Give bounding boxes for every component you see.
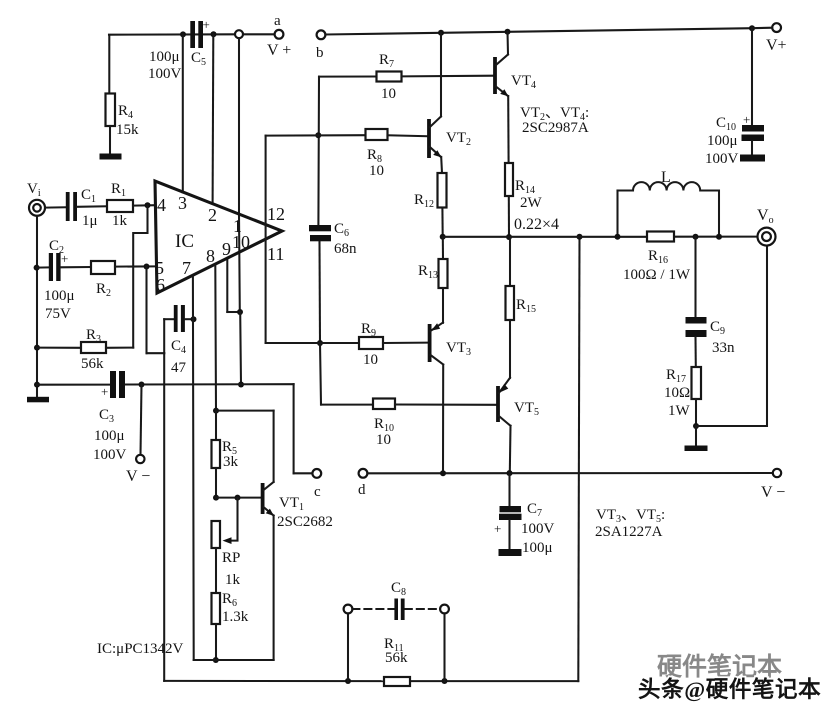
VT4 emitter arrow: [500, 89, 508, 96]
inductor L loop left riser: [616, 191, 618, 237]
svg-text:b: b: [316, 45, 324, 61]
wire: wiper drop: [229, 498, 238, 541]
VT4 emitter diagonal: [496, 87, 508, 97]
svg-text:V+: V+: [766, 37, 787, 54]
svg-text:75V: 75V: [45, 306, 71, 322]
junction VT5/C7 on V- rail: [507, 470, 513, 476]
junction VT4 collector on V+ rail: [505, 29, 511, 35]
inductor L coil: [618, 182, 720, 237]
wire: pin 1 to V+ rail: [238, 38, 240, 214]
wire: R3 left: [37, 347, 81, 349]
junction C10 on V+ rail: [749, 25, 755, 31]
wire: VT2 collector up: [440, 33, 442, 117]
wire: C4 left lead: [164, 318, 173, 320]
svg-text:100μ: 100μ: [522, 540, 553, 556]
junction L right on rail: [716, 234, 722, 240]
wire: pin 9 down: [226, 259, 228, 312]
wire: C7 bottom stub: [508, 520, 510, 549]
transistor VT5 bar: [496, 386, 500, 422]
junction V- stub: [139, 382, 145, 388]
svg-text:9: 9: [222, 239, 231, 259]
wire: C4 left column: [163, 319, 165, 353]
VT3 emitter arrow (PNP into bar): [431, 323, 440, 331]
capacitor C9 plates: [686, 317, 707, 337]
junction R6 bottom: [213, 657, 219, 663]
resistor R9: [359, 337, 383, 349]
VT1 collector diagonal: [264, 482, 274, 490]
terminal a: [275, 30, 284, 39]
wire: R12 bottom to rail: [441, 208, 443, 237]
wire: R17 bottom lead: [695, 399, 697, 426]
wire: V- stub: [141, 385, 142, 455]
open circle node for pin1 on V+ rail: [235, 30, 243, 38]
VT5 emitter arrow (PNP into bar): [499, 384, 508, 393]
wire: rail to V+ terminal: [752, 27, 772, 30]
svg-text:8: 8: [206, 246, 215, 266]
wire: R5 top lead: [215, 411, 217, 440]
svg-text:RP: RP: [222, 550, 240, 566]
wire: VT2 emitter to R12: [440, 157, 443, 173]
wire: C8 dashed right: [405, 608, 440, 610]
svg-text:IC:μPC1342V: IC:μPC1342V: [97, 641, 184, 657]
ground at input: [27, 397, 49, 403]
svg-text:2SC2987A: 2SC2987A: [522, 120, 589, 136]
C8 left open circle: [344, 605, 353, 614]
svg-text:1.3k: 1.3k: [222, 609, 249, 625]
junction at R3: [34, 345, 40, 351]
junction C8 left on bottom rail: [345, 678, 351, 684]
terminal V- right: [773, 469, 781, 477]
svg-text:10Ω: 10Ω: [664, 385, 690, 401]
wire: C2 to R2: [61, 266, 91, 268]
wire: pin4 hook down: [133, 205, 147, 347]
wire: VT4 collector up: [506, 32, 509, 55]
VT2 emitter arrow: [433, 150, 441, 157]
svg-text:3k: 3k: [223, 454, 239, 470]
junction R8 line on x319 column: [315, 132, 321, 138]
resistor R1: [107, 200, 133, 212]
junction C4 on pin7 column: [191, 316, 197, 322]
capacitor C8 plates: [394, 599, 404, 621]
wire: Vi to C1: [45, 206, 66, 208]
wire: R7 line: [319, 75, 377, 77]
transistor VT3 bar: [428, 324, 432, 362]
wire: C8 right column: [443, 613, 445, 681]
terminal c: [312, 469, 321, 478]
wire: pin5 jog to C4 column: [147, 352, 165, 354]
wire: R13 to VT3 emitter: [442, 288, 444, 323]
svg-text:+: +: [494, 521, 501, 536]
VT1 emitter diagonal: [264, 507, 274, 516]
wire: C9 top lead: [694, 237, 696, 317]
wire: C10 top lead: [751, 28, 753, 125]
VT2 emitter diagonal: [430, 147, 441, 157]
wire: bias block bottom rail: [194, 659, 274, 661]
op-amp IC triangle: [155, 181, 282, 293]
wire: pins 9/10/1 drop to ripple line: [239, 312, 242, 385]
resistor R14: [505, 163, 513, 196]
junction VT3 on V- rail: [440, 470, 446, 476]
junction on V+ rail at pin2: [211, 31, 217, 37]
wire: C9 to R17: [694, 337, 696, 367]
wire: V- rail from d: [367, 472, 772, 474]
wire: c lead: [294, 472, 313, 474]
wire: x319 column from R7 corner: [317, 77, 320, 226]
wire: VT4 emitter to R14: [507, 96, 509, 163]
terminal V+ right: [772, 23, 781, 32]
svg-text:10: 10: [232, 232, 250, 252]
wire: C4 right lead: [185, 318, 194, 320]
svg-text:1W: 1W: [668, 403, 691, 419]
junction pins 9/10: [237, 309, 243, 315]
capacitor C1 plates: [66, 192, 77, 221]
wire: R9 line: [266, 342, 359, 344]
svg-text:15k: 15k: [116, 122, 139, 138]
resistor R3: [81, 342, 106, 353]
wire: R6 bottom lead: [215, 624, 217, 660]
wire: R3 right to pin4 column: [106, 347, 133, 349]
wire: Vi ground column: [36, 216, 38, 397]
svg-text:100V: 100V: [705, 151, 739, 167]
wire: R5 bottom lead: [215, 468, 217, 498]
svg-text:100μ: 100μ: [707, 133, 738, 149]
wire: R10 line left: [321, 404, 373, 406]
capacitor C3 plates: [110, 371, 125, 398]
svg-text:100V: 100V: [93, 447, 127, 463]
svg-text:V −: V −: [126, 468, 150, 485]
wire: bias block top rail: [216, 410, 274, 412]
capacitor C4 plates: [174, 305, 185, 332]
resistor R8: [366, 129, 388, 140]
junction VT1 base rail left: [213, 495, 219, 501]
resistor R4: [106, 94, 116, 127]
wire: R2 to pin 5: [115, 265, 156, 267]
svg-text:100μ: 100μ: [94, 428, 125, 444]
junction on V+ rail at pin3: [180, 31, 186, 37]
resistor R2: [91, 261, 115, 274]
wire: feedback bottom rail left: [164, 680, 384, 682]
svg-text:+: +: [101, 384, 108, 399]
junction C2: [34, 265, 40, 271]
svg-text:10: 10: [363, 352, 378, 368]
wire: IC V+ rail top-left segment: [109, 33, 235, 35]
terminal b: [317, 30, 326, 39]
resistor R10: [373, 399, 395, 410]
svg-text:头条@硬件笔记本: 头条@硬件笔记本: [638, 676, 821, 703]
wire: feedback riser to output rail: [578, 237, 579, 681]
wire: VT3 collector down: [442, 365, 444, 474]
junction R14/R15 on output rail: [506, 234, 512, 240]
resistor R7: [377, 72, 402, 82]
junction R12/R13 on output rail: [440, 234, 446, 240]
svg-text:2W: 2W: [520, 195, 543, 211]
terminal V- left: [136, 455, 144, 463]
junction C9 on rail: [693, 234, 699, 240]
wire: R1 to pin 4: [133, 204, 156, 206]
svg-text:d: d: [358, 482, 366, 498]
svg-text:0.22×4: 0.22×4: [514, 216, 559, 233]
resistor R12: [438, 173, 447, 208]
wire: R8 to VT2 base: [388, 134, 428, 137]
svg-text:2SA1227A: 2SA1227A: [595, 524, 663, 540]
transistor Q VT1 bar: [261, 483, 265, 514]
svg-text:12: 12: [267, 204, 285, 224]
resistor R11: [384, 677, 410, 686]
resistor R15: [506, 286, 515, 320]
VT4 collector diagonal: [496, 55, 508, 66]
junction C8 right on bottom rail: [442, 678, 448, 684]
svg-text:56k: 56k: [81, 356, 104, 372]
wire: op-amp output column pins 12/11: [265, 136, 267, 343]
wire: output-stage V+ rail: [325, 28, 752, 34]
junction VT2 collector on V+ rail: [438, 30, 444, 36]
junction feedback on output rail: [577, 234, 583, 240]
wire: pin 3 to V+ rail: [182, 34, 184, 192]
svg-text:6: 6: [156, 275, 165, 295]
resistor R16: [647, 232, 674, 242]
RP wiper arrow: [223, 537, 232, 544]
capacitor C5 plates: [190, 21, 203, 48]
svg-text:3: 3: [178, 193, 187, 213]
svg-text:+: +: [743, 112, 750, 127]
svg-text:V −: V −: [761, 484, 785, 501]
svg-text:100Ω / 1W: 100Ω / 1W: [623, 267, 691, 283]
wire: pin1/pin10 line through IC: [238, 215, 241, 313]
svg-text:IC: IC: [175, 231, 194, 252]
svg-text:2: 2: [208, 205, 217, 225]
junction on ripple line: [238, 382, 244, 388]
terminal d: [359, 469, 368, 478]
wire: R14 bottom to rail: [508, 196, 510, 237]
svg-text:11: 11: [267, 244, 284, 264]
svg-text:100μ: 100μ: [149, 49, 180, 65]
wire: VT5 collector down: [509, 426, 512, 473]
capacitor C2 plates: [49, 253, 61, 281]
C10 bottom bar: [740, 155, 765, 162]
VT5 collector diagonal: [499, 416, 511, 426]
wire: R4 top: [108, 35, 110, 94]
wire: R10 to VT5 base: [395, 403, 496, 405]
svg-text:1k: 1k: [112, 213, 128, 229]
wire: R7 to VT4 base: [402, 75, 494, 78]
wire: ripple line right of C3: [125, 383, 293, 385]
svg-text:100V: 100V: [148, 66, 182, 82]
VT3 emitter diagonal: [431, 323, 444, 332]
wire: ground stub below R17: [695, 426, 697, 446]
output terminal Vo: [758, 228, 776, 246]
wire: ripple line left of C3: [37, 384, 110, 386]
wire: ripple line drop to c: [293, 384, 295, 473]
ground below R4: [100, 154, 122, 160]
wire: R4 bottom: [109, 126, 111, 154]
VT3 collector diagonal: [431, 355, 444, 365]
ground below R17: [685, 446, 708, 452]
C8 right open circle: [440, 605, 449, 614]
wire: R8 line from pins 12/11 column: [266, 134, 366, 136]
wire: pin9 jog to pin10 line: [227, 311, 240, 313]
resistor R13: [439, 259, 448, 288]
wire: RP to R6: [215, 548, 217, 593]
transistor VT4 bar: [493, 57, 497, 94]
svg-text:V +: V +: [267, 42, 291, 59]
svg-text:10: 10: [376, 432, 391, 448]
svg-text:1k: 1k: [225, 572, 241, 588]
C7 bottom bar: [499, 549, 522, 556]
svg-text:10: 10: [381, 86, 396, 102]
capacitor C7 plates: [499, 506, 522, 520]
svg-text:c: c: [314, 484, 321, 500]
resistor R17: [692, 367, 702, 399]
svg-text:100V: 100V: [521, 521, 555, 537]
junction ripple line left: [34, 382, 40, 388]
wire: C10 bottom stub: [751, 141, 753, 155]
svg-text:VT3、VT5:: VT3、VT5:: [596, 507, 665, 525]
svg-text:a: a: [274, 13, 281, 29]
wire: to C2: [37, 266, 49, 268]
wire: zobel return to Vo: [696, 246, 767, 426]
svg-text:2SC2682: 2SC2682: [277, 514, 333, 530]
junction at pin 4: [145, 202, 151, 208]
wire: pin 7 column: [192, 277, 195, 661]
svg-text:1μ: 1μ: [82, 213, 98, 229]
wire: VT1 base line: [216, 497, 261, 499]
wire: pin 2 to V+ rail: [212, 34, 215, 204]
svg-text:47: 47: [171, 360, 187, 376]
wire: C8 dashed left: [352, 608, 394, 610]
VT2 collector diagonal: [430, 117, 441, 128]
junction wiper tap: [235, 495, 241, 501]
junction at pin 5: [144, 264, 150, 270]
resistor R5: [212, 440, 221, 468]
svg-text:7: 7: [182, 258, 191, 278]
wire: feedback column down to bottom rail: [163, 353, 165, 681]
svg-text:10: 10: [369, 163, 384, 179]
input terminal Vi: [29, 200, 45, 216]
svg-text:100μ: 100μ: [44, 288, 75, 304]
potentiometer RP: [212, 521, 221, 548]
wire: output rail main: [443, 236, 647, 238]
wire: R10 drop: [320, 343, 321, 405]
svg-text:33n: 33n: [712, 340, 735, 356]
wire: VT1 collector column: [273, 411, 275, 482]
svg-text:68n: 68n: [334, 241, 357, 257]
wire: VT1 emitter down: [273, 516, 275, 661]
wire: pin5 drop: [145, 267, 147, 354]
svg-text:+: +: [203, 17, 210, 32]
wire: segment between pin1 circle and terminal a: [243, 33, 275, 35]
wire: pin 8 column: [214, 265, 217, 411]
svg-text:56k: 56k: [385, 650, 408, 666]
wire: R15 to VT5 emitter: [509, 320, 511, 378]
wire: R15 top lead: [509, 237, 511, 286]
wire: output rail right of R16: [674, 236, 757, 238]
junction bias top rail: [213, 408, 219, 414]
wire: R9 to VT3 base: [383, 342, 428, 344]
VT5 emitter diagonal: [499, 378, 510, 393]
resistor R6: [212, 593, 221, 624]
capacitor C10 plates: [742, 125, 765, 141]
svg-text:4: 4: [157, 195, 166, 215]
wire: C7 top lead: [508, 473, 510, 506]
junction L left on rail: [615, 234, 621, 240]
junction R17 bottom: [693, 423, 699, 429]
wire: C8 left column: [347, 613, 349, 681]
svg-text:L: L: [661, 169, 671, 186]
wire: R13 top lead: [442, 237, 444, 259]
capacitor C6 plates: [309, 225, 331, 241]
VT1 emitter arrow: [266, 509, 274, 516]
junction R9 line: [317, 340, 323, 346]
transistor VT2 bar: [427, 119, 431, 158]
wire: C6 bottom stub: [318, 242, 321, 343]
wire: feedback bottom rail right: [410, 680, 578, 682]
wire: C1 to R1: [77, 205, 107, 208]
